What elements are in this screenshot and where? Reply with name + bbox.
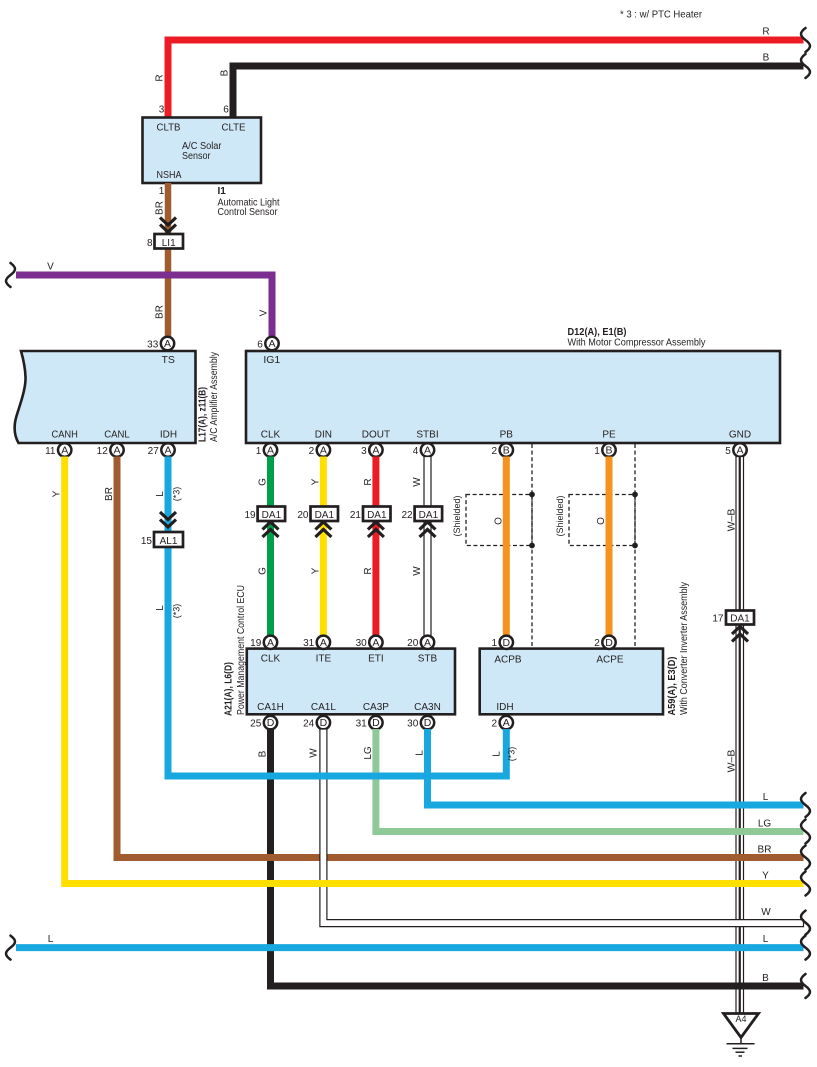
- label D12(A), E1(B) with motor compressor assembly: [568, 326, 707, 349]
- svg-text:DA1: DA1: [262, 510, 282, 521]
- svg-text:AL1: AL1: [160, 536, 178, 547]
- svg-text:A: A: [736, 445, 743, 457]
- svg-text:5: 5: [725, 446, 731, 457]
- svg-text:With Converter Inverter Assemb: With Converter Inverter Assembly: [679, 582, 690, 715]
- svg-text:V: V: [47, 262, 54, 273]
- connector DA1 pin 22: [401, 507, 442, 538]
- svg-text:CLK: CLK: [261, 430, 281, 441]
- svg-text:A: A: [267, 637, 274, 649]
- svg-text:1: 1: [159, 186, 165, 197]
- svg-text:6: 6: [257, 339, 263, 350]
- svg-text:L: L: [491, 751, 502, 757]
- svg-text:20: 20: [407, 638, 419, 649]
- wire W STBI white: [412, 457, 431, 636]
- connector DA1 pin 19: [244, 507, 285, 538]
- svg-text:30: 30: [407, 718, 419, 729]
- svg-text:3: 3: [361, 446, 367, 457]
- svg-text:W–B: W–B: [726, 509, 738, 532]
- svg-text:G: G: [258, 567, 269, 575]
- A/C solar sensor box: [143, 118, 262, 184]
- svg-text:G: G: [258, 478, 269, 486]
- wire L CA3N blue: [415, 729, 804, 805]
- svg-text:I1: I1: [218, 186, 227, 197]
- chevrons into AL1: [160, 512, 176, 527]
- svg-text:O: O: [596, 517, 607, 525]
- svg-text:21: 21: [350, 510, 362, 521]
- svg-text:L: L: [415, 750, 426, 756]
- A/C amplifier assembly box: [15, 351, 196, 443]
- svg-text:LG: LG: [758, 819, 772, 830]
- svg-text:22: 22: [401, 510, 413, 521]
- svg-text:2: 2: [594, 638, 600, 649]
- wire Y DIN: [310, 457, 323, 636]
- break squiggle B: [801, 54, 810, 78]
- label L17(A), z11(B) A/C Amplifier Assembly: [198, 352, 221, 442]
- svg-text:B: B: [763, 53, 770, 64]
- svg-text:24: 24: [303, 718, 315, 729]
- motor compressor assembly box IG1: [246, 351, 780, 443]
- break squiggle R: [801, 28, 810, 52]
- svg-text:B: B: [503, 445, 510, 457]
- svg-text:A: A: [164, 445, 171, 457]
- svg-text:Control Sensor: Control Sensor: [218, 207, 279, 218]
- svg-text:IG1: IG1: [263, 354, 280, 366]
- pins top of ECU: [250, 636, 434, 650]
- svg-text:L17(A), z11(B): L17(A), z11(B): [198, 387, 209, 442]
- svg-text:B: B: [220, 69, 231, 76]
- svg-text:CA3N: CA3N: [414, 702, 441, 713]
- svg-text:(*3): (*3): [172, 604, 182, 619]
- svg-text:PE: PE: [602, 430, 616, 441]
- svg-text:DOUT: DOUT: [362, 430, 390, 441]
- svg-text:A: A: [61, 445, 68, 457]
- svg-text:LG: LG: [363, 746, 374, 760]
- svg-text:A: A: [320, 445, 327, 457]
- svg-text:CANL: CANL: [104, 430, 130, 441]
- svg-text:(*3): (*3): [507, 747, 517, 762]
- shield dashed drop line PE: [634, 444, 636, 649]
- svg-text:R: R: [363, 567, 374, 574]
- svg-text:A: A: [113, 445, 120, 457]
- svg-text:6: 6: [223, 105, 229, 116]
- wire O PB orange: [493, 457, 506, 636]
- svg-text:Y: Y: [310, 567, 321, 574]
- svg-text:Y: Y: [762, 871, 769, 882]
- wire L full width blue: [16, 934, 804, 948]
- pins bottom of IG1: [256, 443, 747, 457]
- svg-text:1: 1: [256, 446, 262, 457]
- svg-text:BR: BR: [758, 845, 772, 856]
- svg-text:ACPE: ACPE: [596, 655, 624, 666]
- svg-text:W: W: [412, 566, 423, 576]
- label I1 automatic light control sensor: [218, 186, 280, 218]
- svg-text:CA3P: CA3P: [363, 702, 389, 713]
- svg-text:IDH: IDH: [496, 702, 513, 713]
- svg-text:W: W: [761, 907, 771, 918]
- pin 6 A on IG1: [257, 337, 278, 351]
- svg-text:CLTB: CLTB: [157, 123, 181, 134]
- svg-text:A/C Amplifier Assembly: A/C Amplifier Assembly: [209, 352, 220, 442]
- svg-text:(Shielded): (Shielded): [555, 495, 565, 536]
- connector DA1 pin 20: [297, 507, 338, 538]
- converter inverter assembly box: [480, 649, 663, 715]
- svg-text:30: 30: [356, 638, 368, 649]
- svg-text:A: A: [267, 445, 274, 457]
- power management control ECU box: [247, 649, 455, 715]
- svg-text:NSHA: NSHA: [157, 170, 182, 181]
- svg-text:A: A: [424, 445, 431, 457]
- svg-text:Y: Y: [52, 490, 63, 497]
- svg-text:B: B: [762, 973, 769, 984]
- svg-text:B: B: [258, 750, 269, 757]
- connector AL1 pin 15: [141, 532, 183, 547]
- svg-text:2: 2: [492, 446, 498, 457]
- svg-text:D: D: [320, 717, 328, 729]
- svg-text:2: 2: [309, 446, 315, 457]
- svg-text:L: L: [155, 605, 166, 611]
- svg-text:L: L: [155, 491, 166, 497]
- svg-text:2: 2: [492, 718, 498, 729]
- pin 33 A on TS: [147, 337, 174, 351]
- svg-text:ITE: ITE: [316, 654, 332, 665]
- connector DA1 pin 21: [350, 507, 391, 538]
- svg-text:L: L: [48, 934, 54, 945]
- svg-text:R: R: [155, 74, 166, 81]
- svg-text:27: 27: [148, 446, 160, 457]
- svg-text:A: A: [424, 637, 431, 649]
- svg-text:11: 11: [45, 446, 56, 457]
- svg-text:STB: STB: [418, 654, 438, 665]
- wire O PE orange: [596, 457, 609, 636]
- wire Y CANH: [52, 457, 804, 884]
- svg-text:A: A: [164, 338, 171, 350]
- svg-text:DA1: DA1: [367, 510, 387, 521]
- wire R DOUT: [363, 457, 376, 636]
- svg-text:15: 15: [141, 536, 153, 547]
- svg-text:A: A: [372, 637, 379, 649]
- svg-text:A21(A), L6(D): A21(A), L6(D): [224, 662, 235, 716]
- svg-text:(Shielded): (Shielded): [452, 495, 462, 536]
- svg-text:D: D: [372, 717, 380, 729]
- pin bottom of converter IDH: [492, 716, 513, 730]
- svg-text:W: W: [308, 748, 319, 758]
- svg-text:DA1: DA1: [419, 510, 439, 521]
- svg-text:O: O: [493, 517, 504, 525]
- svg-text:ETI: ETI: [368, 654, 384, 665]
- svg-text:STBI: STBI: [416, 430, 438, 441]
- svg-text:LI1: LI1: [162, 238, 176, 249]
- shield box PB: [452, 492, 535, 549]
- svg-text:Power Management Control ECU: Power Management Control ECU: [236, 585, 247, 715]
- svg-text:(*3): (*3): [172, 487, 182, 502]
- svg-text:D: D: [424, 717, 432, 729]
- svg-text:17: 17: [712, 614, 724, 625]
- svg-text:20: 20: [297, 510, 309, 521]
- wire B top black: [220, 53, 804, 120]
- svg-text:CANH: CANH: [51, 430, 78, 441]
- svg-text:1: 1: [594, 446, 600, 457]
- svg-text:B: B: [605, 445, 612, 457]
- svg-text:DA1: DA1: [730, 614, 750, 625]
- connector DA1 pin 17: [712, 611, 754, 642]
- wire BR CANL: [104, 457, 804, 858]
- break squiggle V left: [6, 263, 15, 287]
- wire L IDH amplifier: [155, 457, 182, 777]
- svg-text:A: A: [372, 445, 379, 457]
- svg-text:V: V: [259, 309, 270, 316]
- label A21(A), L6(D) power management control ECU: [224, 585, 248, 716]
- connector LI1 pin 8: [147, 234, 183, 249]
- svg-text:CLTE: CLTE: [222, 123, 246, 134]
- svg-text:CA1L: CA1L: [311, 702, 336, 713]
- svg-text:With Motor Compressor Assembly: With Motor Compressor Assembly: [568, 337, 707, 349]
- wire W-B GND: [726, 457, 744, 1014]
- wire B CA1H black: [258, 729, 804, 986]
- svg-text:DA1: DA1: [315, 510, 335, 521]
- svg-text:4: 4: [413, 446, 419, 457]
- svg-text:19: 19: [250, 638, 262, 649]
- shield dashed drop line PB: [531, 444, 533, 649]
- right edge labels: [758, 792, 772, 984]
- svg-text:Y: Y: [310, 478, 321, 485]
- svg-text:W–B: W–B: [726, 750, 738, 773]
- svg-text:A: A: [503, 717, 510, 729]
- svg-text:19: 19: [244, 510, 256, 521]
- pins bottom of amplifier: [45, 443, 175, 457]
- break squiggles right edge: [801, 793, 810, 998]
- svg-text:A: A: [268, 338, 275, 350]
- svg-text:* 3 : w/ PTC Heater: * 3 : w/ PTC Heater: [620, 9, 702, 21]
- svg-text:TS: TS: [161, 354, 174, 366]
- svg-text:1: 1: [492, 638, 498, 649]
- svg-text:GND: GND: [729, 430, 751, 441]
- wire L IDH converter to IDH amplifier blue: [168, 729, 517, 776]
- shield box PE: [555, 492, 638, 549]
- svg-text:BR: BR: [155, 305, 166, 319]
- svg-text:ACPB: ACPB: [494, 655, 522, 666]
- svg-text:CA1H: CA1H: [257, 702, 284, 713]
- svg-text:25: 25: [250, 718, 262, 729]
- svg-text:DIN: DIN: [315, 430, 332, 441]
- svg-text:D: D: [503, 637, 511, 649]
- wire W CA1L white: [308, 729, 803, 927]
- svg-text:R: R: [762, 27, 769, 38]
- label A59(A), E3(D) with converter inverter assembly: [667, 582, 690, 716]
- svg-text:L: L: [763, 792, 769, 803]
- pins top of converter: [492, 636, 616, 650]
- svg-text:R: R: [363, 478, 374, 485]
- wire R top red: [155, 27, 804, 120]
- svg-text:A59(A), E3(D): A59(A), E3(D): [667, 657, 678, 716]
- pins bottom of ECU: [250, 716, 434, 730]
- wire LG CA3P light green: [363, 729, 804, 832]
- svg-text:IDH: IDH: [160, 430, 177, 441]
- svg-text:PB: PB: [500, 430, 514, 441]
- svg-text:3: 3: [159, 105, 165, 116]
- svg-text:31: 31: [303, 638, 315, 649]
- chevrons into LI1: [160, 218, 176, 233]
- svg-text:12: 12: [97, 446, 109, 457]
- svg-text:L: L: [763, 934, 769, 945]
- svg-text:31: 31: [356, 718, 368, 729]
- break squiggle L left: [6, 936, 15, 960]
- svg-text:BR: BR: [155, 201, 166, 215]
- svg-text:33: 33: [147, 339, 159, 350]
- svg-text:8: 8: [147, 238, 153, 249]
- svg-text:D: D: [605, 637, 613, 649]
- svg-text:W: W: [412, 477, 423, 487]
- ground A4: [724, 1014, 759, 1057]
- svg-text:D: D: [267, 717, 275, 729]
- svg-text:A4: A4: [735, 1014, 746, 1024]
- svg-text:CLK: CLK: [261, 654, 281, 665]
- svg-text:A: A: [320, 637, 327, 649]
- wire BR from NSHA pin 1: [155, 183, 169, 337]
- svg-text:BR: BR: [104, 487, 115, 501]
- wire G CLK: [258, 457, 271, 636]
- wire V purple: [16, 262, 272, 338]
- svg-text:Sensor: Sensor: [182, 151, 211, 162]
